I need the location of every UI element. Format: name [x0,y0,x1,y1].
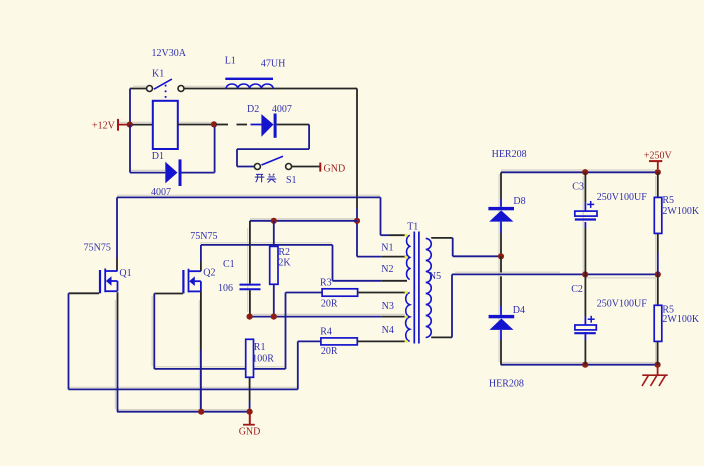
wire dashed segment toward D2 [216,124,262,126]
label R1 [254,342,266,353]
wire R4 right lead to N4 [357,340,407,342]
label 106 [218,283,233,294]
wire R2 bottom lead [273,284,275,316]
svg-text:12V30A: 12V30A [152,48,187,59]
node Q2 source GND junction [198,409,204,415]
svg-text:75N75: 75N75 [190,231,217,242]
label 47UH [261,59,285,70]
wire C1 top vertical [249,221,251,284]
svg-text:GND: GND [239,427,261,438]
svg-text:C3: C3 [572,181,584,192]
svg-text:20R: 20R [321,346,338,357]
transformer T1 primary winding N3 N4 [406,293,410,342]
diode D1 [165,159,181,186]
label R3 [320,278,332,289]
capacitor C3 [575,201,597,220]
wire Q2 source down to GND rail [200,291,202,411]
resistor R5 top [654,197,662,233]
svg-text:D4: D4 [513,305,525,316]
transformer T1 primary winding N1 N2 [407,235,410,279]
wire rail to C1 and R2 tops [250,220,357,222]
svg-text:250V100UF: 250V100UF [597,299,647,310]
wire R1 bottom lead [249,377,251,411]
resistor R2 [270,246,278,284]
label 100R [252,354,274,365]
wire D1 cathode up to D2 node [182,127,215,173]
label L1 [225,56,236,67]
label Q2 [203,268,215,279]
wire Q1 source down to GND rail [117,292,119,412]
label D2 [247,104,259,115]
wire S1 to GND port [292,166,320,168]
wire Q1 gate left vertical [68,293,70,389]
wire R5 bottom top lead [657,274,659,305]
inductor L1 [225,78,273,89]
wire C2 top lead [584,274,586,325]
node R2 bottom junction [271,314,277,320]
wire D2 cathode to S1 loop [277,124,310,126]
transformer T1 secondary winding N5 [426,238,432,337]
label 75N75 of Q1 [84,242,111,253]
wire S1 loop horizontal [237,148,309,150]
wire C1 bottom vertical [249,290,251,316]
wire top rail middle segment [184,88,357,90]
label K1 [152,69,164,80]
svg-text:K1: K1 [152,69,164,80]
resistor R1 [246,339,254,377]
wire left vertical from top rail to +12V node [129,89,131,125]
label D4 [513,305,525,316]
label 2W100K top [662,206,699,217]
wire R5 bottom bottom lead [657,341,659,364]
label C3 [572,181,584,192]
wire Q1 drain to N1 route [117,197,407,271]
svg-text:HER208: HER208 [489,379,524,390]
wire R3 right lead to N3 [358,292,407,294]
transistor Q1 [100,269,118,294]
label HER208 bottom [489,379,524,390]
wire feed to N1-N2 center tap [357,256,407,258]
svg-text:Q1: Q1 [119,268,131,279]
wire Q2 gate left vertical [153,294,155,369]
node R5 mid junction [655,271,661,277]
node feed junction R2/C1 rail [354,218,360,224]
label D1 [152,151,164,162]
svg-text:N1: N1 [381,243,393,254]
node relay/D2 junction [211,121,217,127]
resistor R5 bottom [654,305,662,341]
pin marks yellow [405,234,408,343]
wire D3 anode to midpoint node [500,222,502,257]
label T1 [407,222,418,233]
node +250V junction [655,169,661,175]
wire R5 top lead [657,172,659,197]
label 250V100UF bottom [597,299,647,310]
transistor Q2 [183,269,201,294]
wire Q2 gate stub [154,293,183,295]
svg-text:250V100UF: 250V100UF [597,192,647,203]
label N3 [382,301,394,312]
svg-text:75N75: 75N75 [84,242,111,253]
label C2 [571,284,583,295]
resistor R3 [322,289,358,296]
wire D3 top lead [500,172,502,207]
svg-text:R5: R5 [662,195,674,206]
wire secondary mid rail [452,273,658,275]
capacitor C2 [574,316,596,333]
switch S1 [254,156,291,169]
label N2 [381,264,393,275]
node +12V junction [127,122,133,128]
label HER208 top [492,149,527,160]
label S1 [286,175,297,186]
wire Q1 gate stub [69,292,100,294]
label 75N75 of Q2 [190,231,217,242]
label 20R of R4 [321,346,338,357]
node C1/R1 junction [247,314,253,320]
wire lower rail to N3-N4 center tap [249,316,407,318]
node R1 GND junction [247,409,253,415]
svg-text:N3: N3 [382,301,394,312]
wire C2 bottom lead [584,332,586,365]
wire stub to switch S1 [237,166,254,168]
svg-text:N5: N5 [429,271,441,282]
svg-text:L1: L1 [225,56,236,67]
wire Q2 drain to N2 route [201,245,407,281]
label 20R of R3 [321,298,338,309]
earth ground symbol [642,365,668,386]
svg-text:2K: 2K [278,258,291,269]
label 2W100K bottom [662,314,699,325]
svg-text:D2: D2 [247,104,259,115]
node earth junction [655,362,661,368]
svg-text:HER208: HER208 [492,149,527,160]
wire R3 left vertical [285,293,287,369]
svg-text:+12V: +12V [92,121,116,132]
svg-text:+250V: +250V [644,151,673,162]
label R5 top [662,195,674,206]
node C2 top junction [582,271,588,277]
diode D2 [261,114,276,138]
wire output top rail [501,171,658,173]
svg-text:S1: S1 [286,175,297,186]
node C2 bottom junction [582,362,588,368]
label R5 bottom [662,305,674,316]
label N5 [429,271,441,282]
label R2 [278,247,290,258]
node R2 top junction [271,218,277,224]
wire Q2 gate to R3 horizontal [154,368,285,370]
svg-text:2W100K: 2W100K [662,314,699,325]
node C3 top junction [582,169,588,175]
label Q1 [119,268,131,279]
label 12V30A [152,48,187,59]
label 4007 of D1 [151,187,171,198]
wire +12V rail to relay coil [133,124,153,126]
diode D4 [489,315,515,330]
wire D4 anode down to bottom rail [500,330,502,365]
wire R5 top bottom lead [657,233,659,274]
wire center feed vertical from top rail [356,89,358,257]
svg-text:Q2: Q2 [203,268,215,279]
svg-text:D8: D8 [513,196,525,207]
power port GND right of S1 [320,163,345,175]
wire N5 bottom tap [431,274,452,337]
label 250V100UF top [597,192,647,203]
wire R4 left lead [298,340,321,342]
svg-text:R1: R1 [254,342,266,353]
power port GND bottom [239,412,261,438]
wire C3 bottom lead [584,222,586,274]
label N4 [382,325,394,336]
svg-text:2W100K: 2W100K [662,206,699,217]
wire S1 loop left vertical [236,149,238,166]
svg-text:C2: C2 [571,284,583,295]
svg-text:C1: C1 [223,259,235,270]
resistor R4 [321,338,357,345]
label 2K [278,258,291,269]
svg-text:GND: GND [324,163,346,174]
power port +250V [644,151,673,169]
wire R2 top lead [273,221,275,247]
svg-text:20R: 20R [321,298,338,309]
node rectifier midpoint [498,253,504,259]
label R4 [320,327,332,338]
capacitor C1 [240,285,261,290]
relay coil K1 [153,101,178,149]
wire top rail left segment [130,88,147,90]
wire output bottom rail [501,364,658,366]
label N1 [381,243,393,254]
svg-text:4007: 4007 [272,104,292,115]
wire D1 anode from left vertical [130,125,165,173]
power port +12V [92,119,127,132]
wire relay coil to D2 node [178,124,214,126]
svg-text:T1: T1 [407,222,418,233]
svg-text:100R: 100R [252,354,274,365]
svg-text:D1: D1 [152,151,164,162]
transformer T1 core [414,232,419,344]
diode D3 [488,207,514,222]
label D8 [513,196,525,207]
svg-text:47UH: 47UH [261,59,285,70]
svg-text:R4: R4 [320,327,332,338]
wire R3 left lead [286,292,323,294]
wire R4 to Q1 gate horizontal [69,388,298,390]
label C1 [223,259,235,270]
svg-text:106: 106 [218,283,233,294]
wire C3 top lead [584,172,586,211]
wire R4 left vertical [297,341,299,389]
label 4007 of D2 [272,104,292,115]
wire S1 loop right vertical [308,125,310,150]
svg-text:N4: N4 [382,325,394,336]
wire N5 top tap [431,238,501,256]
svg-text:R3: R3 [320,278,332,289]
wire GND rail [117,411,250,413]
svg-text:N2: N2 [381,264,393,275]
svg-text:R2: R2 [278,247,290,258]
svg-text:4007: 4007 [151,187,171,198]
label kaiguan switch chinese [255,174,276,183]
wire midpoint to D4 cathode [500,256,502,315]
relay contact K1 [147,79,185,98]
